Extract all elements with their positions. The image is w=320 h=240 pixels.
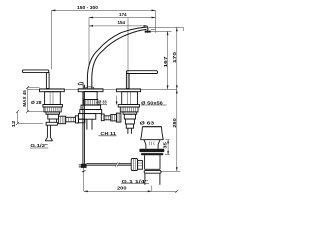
spout wide flange — [81, 105, 101, 109]
rod tick — [82, 171, 86, 173]
right side fitting nut — [111, 114, 117, 121]
right lever handle — [126, 71, 157, 89]
spout shank — [84, 92, 97, 100]
dim 154 line — [89, 25, 148, 27]
right valve tails — [125, 119, 134, 134]
dim 170 vertical — [176, 27, 178, 89]
right valve flange — [118, 105, 139, 108]
rod vertical below junction — [83, 168, 85, 191]
dim 35 vertical — [165, 140, 170, 155]
left valve escutcheon — [40, 89, 65, 92]
svg-text:G.1/2": G.1/2" — [30, 143, 48, 148]
svg-text:Ø 33: Ø 33 — [99, 100, 107, 105]
right side pipe — [101, 114, 110, 121]
dim 12 vertical — [16, 110, 43, 125]
dim 150-300 line — [51, 10, 155, 12]
left valve supply pipe — [45, 125, 52, 141]
svg-text:280: 280 — [172, 118, 177, 128]
dim 280 vertical — [176, 89, 178, 171]
svg-text:Ø 63: Ø 63 — [140, 120, 155, 125]
pop-up knob — [78, 82, 85, 88]
dim 174 line — [89, 17, 156, 19]
extension line at spout outer edge — [88, 18, 90, 67]
spout tails — [87, 119, 92, 129]
right valve body — [122, 92, 138, 105]
svg-text:Ø 28: Ø 28 — [31, 100, 42, 105]
svg-text:35: 35 — [163, 142, 168, 149]
svg-text:Ø 50x56: Ø 50x56 — [141, 100, 163, 105]
drain rod nut — [131, 159, 137, 171]
left lever handle — [22, 70, 49, 89]
drain knurl marks — [149, 142, 154, 146]
spout band — [80, 110, 102, 114]
drain cap — [142, 126, 161, 128]
spout arc outer — [87, 27, 147, 88]
CH11 fitting — [116, 113, 121, 122]
svg-text:150 - 300: 150 - 300 — [77, 5, 98, 10]
left valve flange — [43, 105, 63, 108]
svg-text:200: 200 — [117, 186, 127, 191]
right valve step — [123, 112, 137, 114]
spout base dome — [86, 87, 94, 89]
spout escutcheon — [78, 89, 103, 92]
dim 167 vertical — [167, 31, 169, 89]
left valve knurled nut — [44, 107, 61, 112]
left side fitting nut — [59, 116, 66, 124]
right valve knurled nut — [120, 107, 138, 112]
label O33 leader arrow — [116, 96, 118, 103]
spout tip face — [147, 27, 149, 31]
spout arc inner — [92, 29, 147, 88]
extension line spout outlet for 167 — [150, 30, 172, 32]
svg-text:154: 154 — [118, 20, 126, 25]
spout lower block — [78, 114, 95, 120]
spout aerator — [145, 31, 151, 33]
drain flange — [144, 140, 160, 149]
drain coupling ring — [144, 170, 161, 173]
svg-text:G.1 1/4": G.1 1/4" — [122, 179, 149, 184]
right valve lower block — [124, 114, 135, 119]
left valve centerline — [50, 10, 52, 69]
right valve centerline — [127, 18, 129, 89]
svg-text:167: 167 — [163, 56, 168, 68]
extension line right of spout tip — [155, 10, 157, 33]
left side pipe — [66, 116, 79, 123]
right valve escutcheon — [117, 89, 141, 92]
extension line spout top for 170 — [149, 27, 183, 31]
svg-text:12: 12 — [11, 120, 16, 127]
extension line 280 bottom — [160, 170, 180, 172]
spout knurled nut — [84, 100, 98, 105]
left valve tails — [46, 119, 57, 125]
left valve body O28 — [45, 92, 61, 105]
pop-up junction — [79, 164, 87, 168]
drain rod coupling — [138, 161, 143, 170]
drain body — [145, 155, 160, 169]
drain gasket — [139, 149, 164, 152]
pop-up horizontal rod — [87, 162, 132, 167]
extension line at tip 154 — [147, 26, 149, 33]
svg-text:CH 11: CH 11 — [100, 131, 116, 136]
left valve lower block — [48, 114, 59, 119]
spout tip side line — [151, 29, 156, 31]
pop-up lift rod — [83, 92, 85, 164]
svg-text:MAX 45: MAX 45 — [22, 90, 27, 107]
deck reference line — [28, 88, 177, 90]
svg-text:170: 170 — [172, 51, 177, 63]
left valve step — [46, 112, 60, 114]
drain tailpipe — [145, 173, 160, 185]
dim 200 bottom — [84, 186, 179, 193]
dim MAX45 vertical — [26, 86, 45, 113]
svg-text:174: 174 — [119, 12, 127, 17]
